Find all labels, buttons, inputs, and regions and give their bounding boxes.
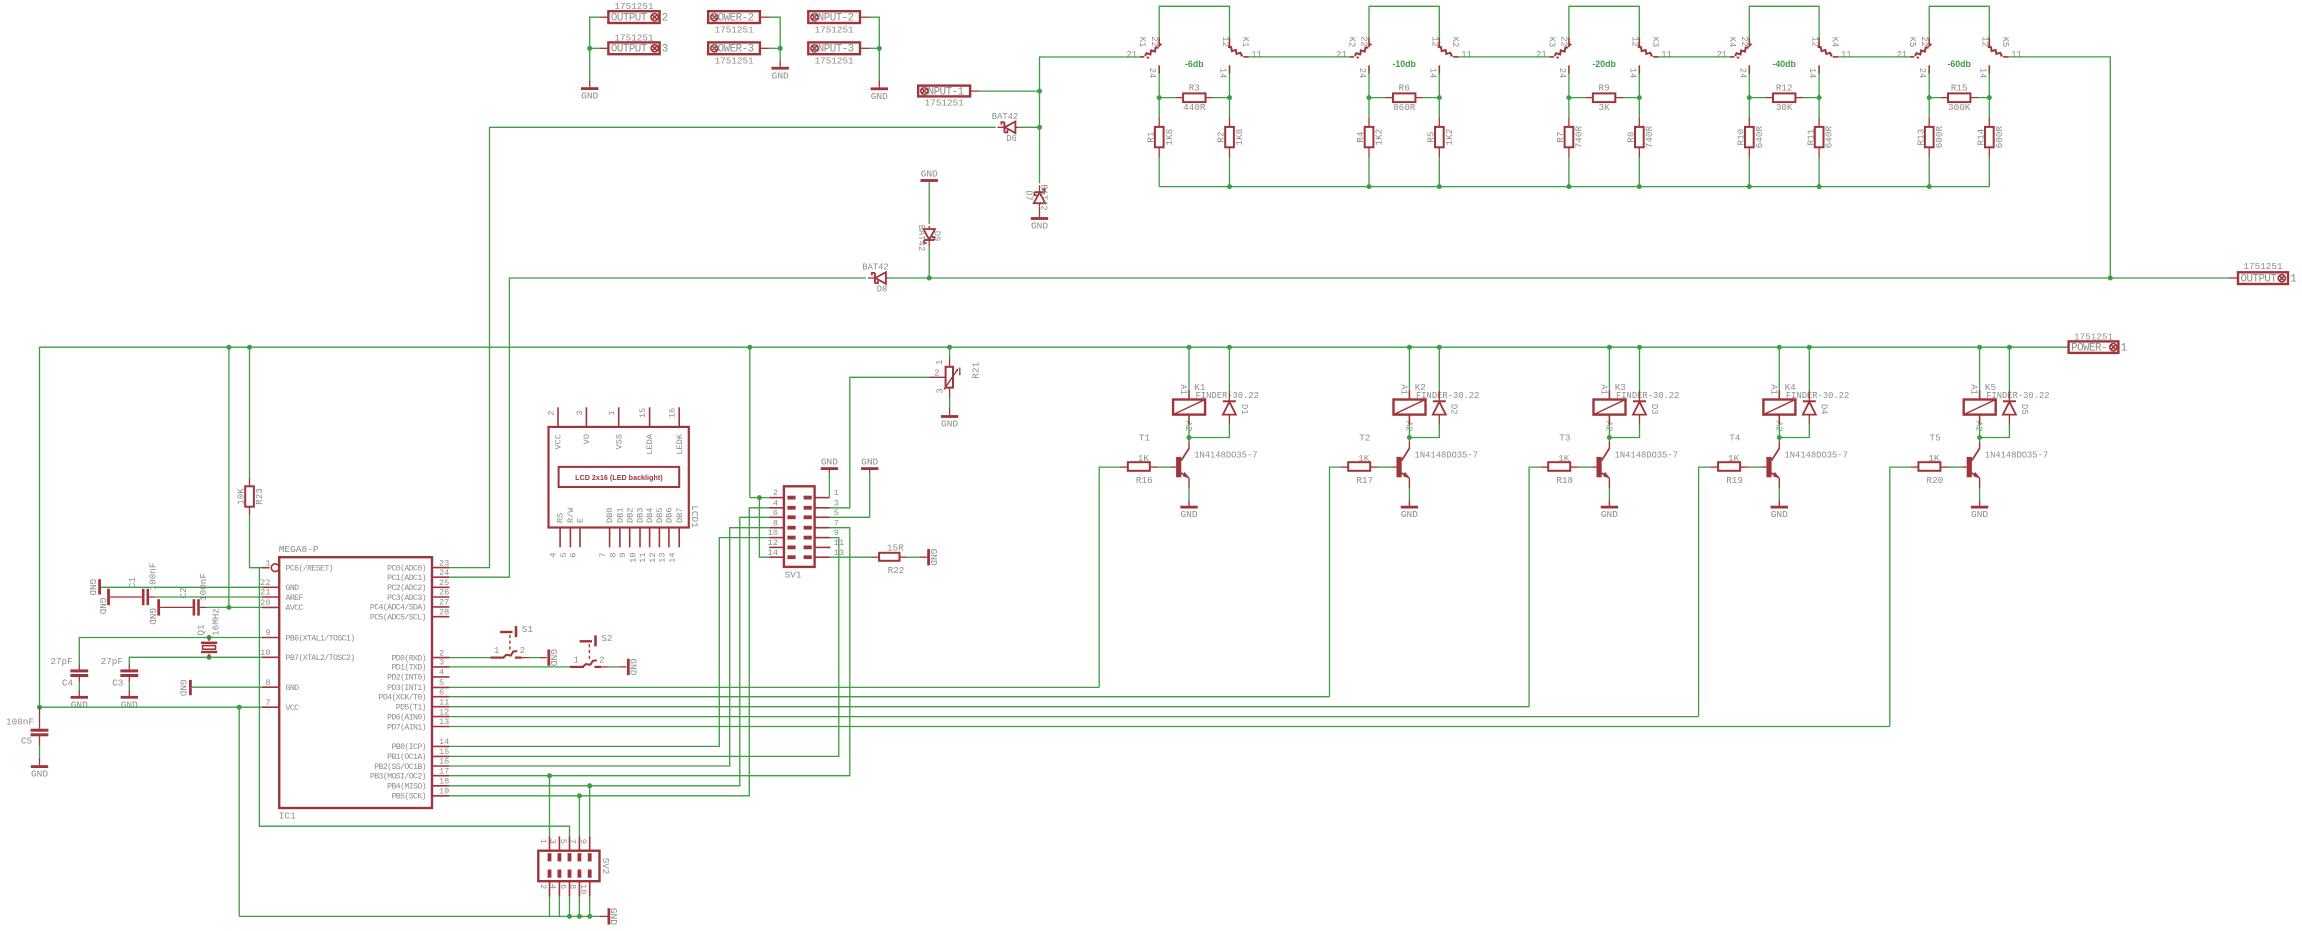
svg-text:640R: 640R [1754, 126, 1765, 149]
svg-text:T2: T2 [1359, 432, 1370, 443]
svg-text:GND: GND [871, 91, 888, 102]
svg-text:1N4148DO35-7: 1N4148DO35-7 [1615, 451, 1678, 461]
svg-text:4: 4 [549, 553, 559, 558]
svg-text:PD1(TXD): PD1(TXD) [391, 663, 426, 673]
svg-text:14: 14 [1218, 68, 1228, 79]
connector INPUT-3 (1751251) [808, 42, 860, 54]
svg-text:INPUT-3: INPUT-3 [812, 44, 854, 56]
resistor R16 1K base [1099, 467, 1120, 687]
wire INPUT-1 to attenuator input [970, 90, 980, 92]
junction rail [1566, 184, 1571, 189]
svg-text:11: 11 [638, 553, 648, 563]
svg-text:11: 11 [439, 697, 449, 707]
svg-text:D8: D8 [877, 285, 888, 295]
svg-text:300K: 300K [1948, 102, 1971, 113]
junction SV2 gnd [577, 914, 582, 919]
resistor R8 740R [1638, 98, 1640, 118]
svg-text:R15: R15 [1951, 83, 1968, 94]
SV1 right pin 1 stub [815, 497, 830, 499]
pin 14 stub K2 [1438, 65, 1440, 73]
diode D3 1N4148 [1639, 347, 1641, 390]
svg-text:1: 1 [573, 655, 578, 665]
wire pin8 GND [192, 686, 262, 688]
svg-text:7: 7 [598, 553, 608, 558]
svg-text:R4: R4 [1355, 131, 1366, 143]
svg-text:-60db: -60db [1947, 59, 1971, 69]
svg-text:R22: R22 [888, 565, 905, 576]
svg-text:12: 12 [1630, 36, 1640, 47]
svg-text:1K: 1K [1138, 453, 1150, 464]
wire down to GND [589, 48, 591, 80]
junction rail coil K5 [1977, 345, 1982, 350]
wire SV2 pin1 to MOSI line [549, 776, 551, 837]
wire INPUT-3 stub [860, 47, 870, 49]
svg-text:A2: A2 [1773, 421, 1783, 432]
svg-text:13: 13 [657, 553, 667, 563]
svg-text:PD0(RXD): PD0(RXD) [391, 653, 426, 663]
pin 14 stub K3 [1638, 65, 1640, 73]
svg-text:PD2(INT0): PD2(INT0) [387, 673, 426, 683]
transistor T3 [1608, 438, 1610, 442]
junction collector node T3 [1607, 435, 1612, 440]
capacitor C1 100nF (AREF) [107, 589, 110, 605]
junction output bus [2108, 276, 2113, 281]
resistor R17 1K base [1330, 467, 1341, 697]
wire SV2 bottom pin drop [569, 897, 571, 917]
ground GND (T2) [1401, 506, 1418, 509]
svg-text:640R: 640R [1824, 126, 1835, 149]
svg-text:PB4(MISO): PB4(MISO) [387, 782, 426, 792]
svg-text:GND: GND [147, 608, 158, 625]
svg-text:GND: GND [1601, 509, 1618, 520]
ground GND (pin22, rotated) [98, 579, 101, 594]
svg-text:OUTPUT: OUTPUT [611, 44, 648, 56]
connector POWER-3 (1751251) [708, 42, 760, 54]
wire VCC to pin7 [40, 706, 262, 708]
svg-text:VSS: VSS [614, 434, 624, 449]
svg-text:12: 12 [648, 553, 658, 563]
wire D9 to bus [928, 247, 930, 278]
svg-text:12: 12 [1220, 36, 1230, 47]
svg-text:PC4(ADC4/SDA): PC4(ADC4/SDA) [370, 603, 426, 613]
capacitor C5 100nF [39, 707, 41, 729]
svg-text:PB3(MOSI/OC2): PB3(MOSI/OC2) [370, 772, 426, 782]
resistor R7 740R [1568, 98, 1570, 118]
svg-text:1K2: 1K2 [1444, 129, 1455, 146]
svg-text:DB0: DB0 [605, 508, 615, 523]
resistor R13 600R [1928, 98, 1930, 118]
svg-text:D1: D1 [1239, 404, 1249, 415]
ground GND (C3) [121, 696, 138, 699]
svg-text:2: 2 [538, 884, 548, 889]
svg-text:INPUT-2: INPUT-2 [812, 13, 854, 25]
svg-text:740R: 740R [1574, 126, 1585, 149]
wire PD6 to T4 base [449, 716, 1698, 718]
svg-text:28: 28 [439, 607, 449, 617]
wire emitter T1 to GND [1188, 478, 1190, 488]
connector INPUT-1 (1751251) [918, 86, 970, 97]
svg-text:PD4(XCK/T0): PD4(XCK/T0) [379, 693, 426, 703]
wire pin3 TXD to S2 [449, 666, 569, 668]
svg-text:22: 22 [260, 578, 270, 588]
svg-text:1751251: 1751251 [2074, 331, 2113, 342]
svg-text:D7: D7 [1024, 190, 1034, 201]
junction left node K3 [1566, 95, 1571, 100]
junction R21 top [947, 345, 952, 350]
SV1 pads row 3 [787, 515, 795, 519]
svg-text:11: 11 [1661, 50, 1672, 60]
svg-text:R20: R20 [1927, 475, 1944, 486]
svg-text:GND: GND [286, 584, 300, 593]
wire PD4 to T2 base [449, 696, 1329, 698]
junction MISO [587, 783, 592, 788]
SV1 left pin 10 stub [769, 537, 784, 539]
ground GND (C5) [31, 765, 48, 768]
svg-text:22: 22 [1359, 36, 1369, 47]
svg-text:A1: A1 [1768, 384, 1778, 395]
svg-text:C1: C1 [127, 577, 138, 589]
svg-text:FINDER-30.22: FINDER-30.22 [1786, 391, 1849, 401]
pin 15 PB1(OC1A) [432, 755, 449, 757]
junction right node K2 [1437, 95, 1442, 100]
SV2 pads col 1 [548, 853, 552, 861]
transistor T2 [1408, 438, 1410, 442]
wire emitter T3 to GND [1608, 478, 1610, 488]
svg-text:PC6(/RESET): PC6(/RESET) [286, 564, 333, 574]
SV2 pin 5 stub [569, 836, 571, 850]
junction left node K1 [1157, 95, 1162, 100]
svg-text:A1: A1 [1969, 384, 1979, 395]
svg-text:1N4148DO35-7: 1N4148DO35-7 [1985, 451, 2048, 461]
svg-text:FINDER-30.22: FINDER-30.22 [1616, 391, 1679, 401]
pin 18 PB4(MISO) [432, 785, 449, 787]
LCD pin 1 VSS [618, 407, 620, 427]
diode D9 BAT42 [923, 226, 935, 247]
junction rail diode D4 [1807, 345, 1812, 350]
connector OUTPUT-3 (1751251) [608, 42, 659, 54]
wire PB4/MISO to SV1 pin6 [449, 517, 769, 786]
svg-text:-6db: -6db [1185, 59, 1204, 69]
svg-text:11: 11 [1841, 50, 1852, 60]
wire RESET to SV2 pin5 [259, 568, 569, 837]
svg-text:A2: A2 [1183, 421, 1193, 432]
LCD pin 7 DB0 [609, 528, 611, 548]
capacitor C4 27pF [78, 665, 80, 670]
svg-text:R11: R11 [1805, 128, 1816, 145]
svg-text:INPUT-1: INPUT-1 [922, 86, 964, 98]
svg-text:25: 25 [439, 578, 449, 588]
pin 24 stub K3 [1568, 65, 1570, 73]
wire down to GND [878, 48, 880, 80]
pin 28 PC5(ADC5/SCL) [432, 616, 449, 618]
svg-text:GND: GND [1180, 509, 1197, 520]
SV2 pin 2 stub [549, 881, 551, 896]
svg-text:14: 14 [1807, 68, 1817, 79]
wire audio bus [889, 277, 2228, 279]
SV1 pads row 5 [787, 536, 795, 540]
svg-text:24: 24 [1557, 68, 1567, 79]
crystal Q1 16MHz [207, 635, 212, 640]
diode D7 BAT42 [1034, 185, 1046, 206]
ground GND (T5) [1971, 506, 1988, 509]
pin 22 GND [262, 586, 279, 588]
junction SV1 pin2 [757, 495, 762, 500]
svg-text:27: 27 [439, 598, 449, 608]
svg-text:9: 9 [618, 553, 628, 558]
junction rail [1817, 184, 1822, 189]
ground GND (pin8, rotated) [189, 680, 192, 695]
resistor R4 1K2 [1368, 98, 1370, 118]
resistor R3 440R [1159, 97, 1175, 99]
connector SV1 body [784, 486, 815, 567]
wire D7 to GND [1039, 206, 1041, 217]
diode D8 BAT42 [868, 272, 889, 284]
svg-text:16: 16 [668, 408, 678, 418]
svg-text:14: 14 [439, 737, 449, 747]
svg-text:11: 11 [1461, 50, 1472, 60]
svg-text:2: 2 [662, 13, 668, 25]
svg-text:C3: C3 [112, 678, 123, 689]
resistor R18 1K base [1529, 467, 1540, 707]
svg-text:GND: GND [286, 684, 300, 693]
svg-text:GND: GND [1971, 509, 1988, 520]
svg-text:A2: A2 [1974, 421, 1984, 432]
SV2 pads col 2 [558, 853, 562, 861]
svg-text:GND: GND [921, 168, 938, 179]
svg-text:30K: 30K [1776, 102, 1793, 113]
svg-text:1: 1 [834, 488, 839, 498]
svg-text:24: 24 [1147, 68, 1157, 79]
svg-text:K1: K1 [1240, 37, 1250, 48]
junction rail [1637, 184, 1642, 189]
resistor R15 300K [1929, 97, 1940, 99]
svg-text:R3: R3 [1189, 83, 1200, 94]
svg-text:22: 22 [1739, 36, 1749, 47]
svg-text:LEDK: LEDK [675, 433, 685, 454]
svg-text:POWER-3: POWER-3 [712, 44, 754, 56]
wire top loop section K5 [1929, 6, 1989, 37]
LCD module LCD1 body [549, 427, 689, 528]
wire XTAL1 line [79, 638, 261, 665]
svg-text:600R: 600R [1994, 126, 2005, 149]
svg-text:1N4148DO35-7: 1N4148DO35-7 [1415, 451, 1478, 461]
svg-text:12: 12 [1980, 36, 1990, 47]
junction right node K4 [1817, 95, 1822, 100]
svg-text:T1: T1 [1139, 432, 1151, 443]
pin 24 stub K2 [1368, 65, 1370, 73]
ground GND (outputs) [581, 87, 598, 90]
svg-text:DB1: DB1 [616, 508, 626, 523]
wire emitter T4 to GND [1778, 478, 1780, 488]
ground GND (D7) [1031, 217, 1048, 220]
wire OUTPUT-2 to GND net [599, 16, 608, 18]
junction rail diode D1 [1227, 345, 1232, 350]
LCD pin 5 R/W [569, 528, 571, 548]
svg-text:DB7: DB7 [675, 508, 685, 523]
relay coil K1 FINDER-30.22 [1188, 347, 1190, 390]
svg-text:1K8: 1K8 [1164, 129, 1175, 146]
svg-text:2: 2 [773, 488, 778, 498]
junction collector node T5 [1977, 435, 1982, 440]
pin 23 PC0(ADC0) [432, 567, 449, 569]
junction rail [1367, 184, 1372, 189]
svg-text:VO: VO [582, 434, 592, 444]
svg-text:1: 1 [2290, 274, 2296, 286]
svg-text:GND: GND [928, 549, 939, 566]
svg-text:K3: K3 [1547, 37, 1557, 48]
svg-text:PB2(SS/OC1B): PB2(SS/OC1B) [374, 762, 426, 772]
svg-text:6: 6 [439, 687, 444, 697]
resistor R14 600R [1988, 98, 1990, 118]
svg-text:600R: 600R [1934, 126, 1945, 149]
svg-text:R5: R5 [1426, 132, 1437, 143]
svg-text:21: 21 [1336, 50, 1347, 60]
svg-text:K3: K3 [1650, 37, 1660, 48]
wire top loop section K2 [1369, 6, 1439, 37]
wire SV2 bottom pin drop [558, 897, 560, 917]
capacitor C3 27pF [128, 665, 130, 670]
wire PB3/MOSI to SV1 pin7 [449, 528, 849, 776]
svg-text:2: 2 [546, 410, 556, 415]
svg-text:1: 1 [538, 839, 548, 844]
LCD pin 2 VCC [557, 407, 559, 427]
connector INPUT-2 (1751251) [808, 11, 860, 23]
svg-text:K2: K2 [1450, 37, 1460, 48]
svg-text:24: 24 [439, 568, 449, 578]
svg-text:27pF: 27pF [101, 656, 123, 667]
svg-text:K1: K1 [1137, 37, 1147, 48]
resistor R5 1K2 [1438, 98, 1440, 118]
wire coil K5 A2 to collector [1979, 415, 1981, 425]
relay contact K5 pins 21/22 (left) [1928, 37, 1930, 47]
svg-text:LCD1: LCD1 [689, 505, 700, 528]
svg-text:7: 7 [568, 839, 578, 844]
junction rail [1227, 184, 1232, 189]
svg-text:6: 6 [558, 884, 568, 889]
SV2 pin 7 stub [578, 836, 580, 850]
svg-text:8: 8 [568, 884, 578, 889]
junction rail coil K2 [1407, 345, 1412, 350]
wire emitter T5 to GND [1979, 478, 1981, 488]
svg-text:R1: R1 [1145, 131, 1156, 143]
svg-text:PC5(ADC5/SCL): PC5(ADC5/SCL) [370, 613, 426, 623]
wire S2 to GND [609, 666, 620, 668]
svg-text:PC3(ADC3): PC3(ADC3) [387, 593, 426, 603]
relay contact K3 pins 12/11 (right) [1638, 37, 1640, 46]
resistor R12 30K [1749, 97, 1765, 99]
svg-text:14: 14 [1627, 68, 1637, 79]
junction left node K2 [1367, 95, 1372, 100]
svg-text:12: 12 [768, 538, 778, 548]
LCD inner label box [559, 467, 680, 487]
svg-text:R12: R12 [1776, 83, 1793, 94]
svg-text:PD7(AIN1): PD7(AIN1) [387, 722, 426, 732]
wire attenuator output to bus [2009, 57, 2111, 278]
svg-text:R16: R16 [1136, 475, 1153, 486]
svg-text:D9: D9 [932, 231, 942, 242]
svg-text:13: 13 [439, 717, 449, 727]
ground GND (S2, rotated) [627, 659, 630, 675]
wire R21 to GND [949, 388, 951, 398]
pin 12 PD6(AIN0) [432, 716, 449, 718]
svg-text:10: 10 [260, 648, 270, 658]
wire INPUT-2 to GND net [860, 16, 870, 18]
SV2 pin 9 stub [589, 836, 591, 850]
svg-text:FINDER-30.22: FINDER-30.22 [1416, 391, 1479, 401]
pin 10 PB7(XTAL2/TOSC2) [262, 656, 279, 658]
junction C5 [37, 705, 42, 710]
svg-text:11: 11 [1251, 50, 1262, 60]
LCD pin 15 LEDA [649, 407, 651, 427]
pin 8 GND [262, 686, 279, 688]
svg-text:IC1: IC1 [279, 811, 296, 822]
svg-text:21: 21 [260, 588, 270, 598]
wire rail to SV1 pin2 [749, 347, 751, 497]
SV1 pads row 4 [787, 526, 795, 530]
junction rail [1927, 184, 1932, 189]
resistor R11 640R [1818, 98, 1820, 118]
svg-text:R2: R2 [1216, 132, 1227, 143]
pin 17 PB3(MOSI/OC2) [432, 775, 449, 777]
svg-text:PC0(ADC0): PC0(ADC0) [387, 563, 426, 573]
ground GND (SV1 pin5, flipped) [861, 467, 878, 470]
connector POWER-2 (1751251) [708, 11, 760, 23]
SV1 pin 11 stub (nc) [815, 546, 831, 548]
transistor T4 [1778, 438, 1780, 442]
wire SV2 ground rail [239, 915, 600, 917]
svg-text:R6: R6 [1399, 83, 1410, 94]
svg-text:5: 5 [834, 508, 839, 518]
svg-text:4: 4 [548, 884, 558, 889]
svg-text:GND: GND [87, 579, 98, 596]
junction rail diode D3 [1637, 345, 1642, 350]
svg-text:740R: 740R [1644, 126, 1655, 149]
svg-text:K5: K5 [1907, 37, 1917, 48]
svg-text:24: 24 [1357, 68, 1367, 79]
svg-text:16: 16 [439, 757, 449, 767]
wire top loop section K3 [1569, 6, 1639, 37]
SV2 pin 1 stub [549, 836, 551, 850]
svg-text:21: 21 [1536, 50, 1547, 60]
svg-text:GND: GND [1771, 509, 1788, 520]
LCD pin 12 DB5 [658, 528, 660, 548]
svg-text:9: 9 [834, 528, 839, 538]
SV1 right pin 7 stub [815, 527, 830, 529]
wire PB1/OC1A to SV1 pin9 [449, 538, 838, 757]
SV1 left pin 14 stub [769, 556, 784, 558]
SV2 pin 3 stub [558, 836, 560, 850]
junction AVCC line [226, 605, 231, 610]
svg-text:PB7(XTAL2/TOSC2): PB7(XTAL2/TOSC2) [286, 653, 355, 663]
wire PB2/OC1B to SV1 pin8 [449, 528, 769, 766]
svg-text:SV2: SV2 [600, 858, 611, 875]
svg-text:10: 10 [628, 553, 638, 563]
resistor R1 1K8 [1158, 98, 1160, 118]
svg-text:21: 21 [1896, 50, 1907, 60]
pin 19 PB5(SCK) [432, 795, 449, 797]
svg-text:PD5(T1): PD5(T1) [396, 703, 426, 713]
SV2 pin 4 stub [558, 881, 560, 896]
wire input node down to D7 [1039, 127, 1041, 183]
svg-text:DB4: DB4 [645, 508, 655, 523]
wire AVCC drop [228, 347, 230, 607]
svg-text:MEGA8-P: MEGA8-P [279, 544, 319, 555]
junction rail coil K4 [1777, 345, 1782, 350]
svg-text:D4: D4 [1819, 404, 1829, 415]
svg-text:T5: T5 [1930, 432, 1941, 443]
LCD pin 8 DB1 [619, 528, 621, 548]
svg-text:PB5(SCK): PB5(SCK) [391, 792, 426, 802]
